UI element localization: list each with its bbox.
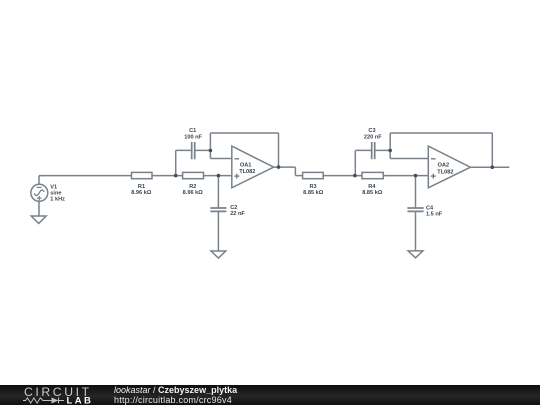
svg-text:OA2: OA2 bbox=[438, 163, 450, 169]
svg-text:LAB: LAB bbox=[67, 395, 94, 405]
svg-text:R4: R4 bbox=[368, 184, 376, 190]
svg-text:1 kHz: 1 kHz bbox=[50, 197, 65, 203]
svg-text:OA1: OA1 bbox=[240, 162, 252, 168]
svg-text:8.96 kΩ: 8.96 kΩ bbox=[131, 190, 152, 196]
svg-text:100 nF: 100 nF bbox=[184, 134, 202, 140]
svg-text:sine: sine bbox=[50, 190, 61, 196]
svg-text:220 nF: 220 nF bbox=[364, 134, 382, 140]
svg-text:8.85 kΩ: 8.85 kΩ bbox=[362, 190, 383, 196]
svg-text:C1: C1 bbox=[189, 128, 196, 134]
svg-text:C2: C2 bbox=[230, 205, 237, 211]
svg-text:R3: R3 bbox=[310, 184, 317, 190]
svg-text:22 nF: 22 nF bbox=[230, 211, 245, 217]
svg-text:1.5 nF: 1.5 nF bbox=[426, 211, 443, 217]
svg-text:8.85 kΩ: 8.85 kΩ bbox=[303, 190, 324, 196]
svg-text:R1: R1 bbox=[138, 184, 145, 190]
svg-text:C3: C3 bbox=[368, 128, 375, 134]
svg-text:TL082: TL082 bbox=[437, 169, 453, 175]
svg-text:TL082: TL082 bbox=[239, 169, 255, 175]
svg-text:R2: R2 bbox=[189, 184, 196, 190]
svg-text:8.96 kΩ: 8.96 kΩ bbox=[183, 190, 204, 196]
